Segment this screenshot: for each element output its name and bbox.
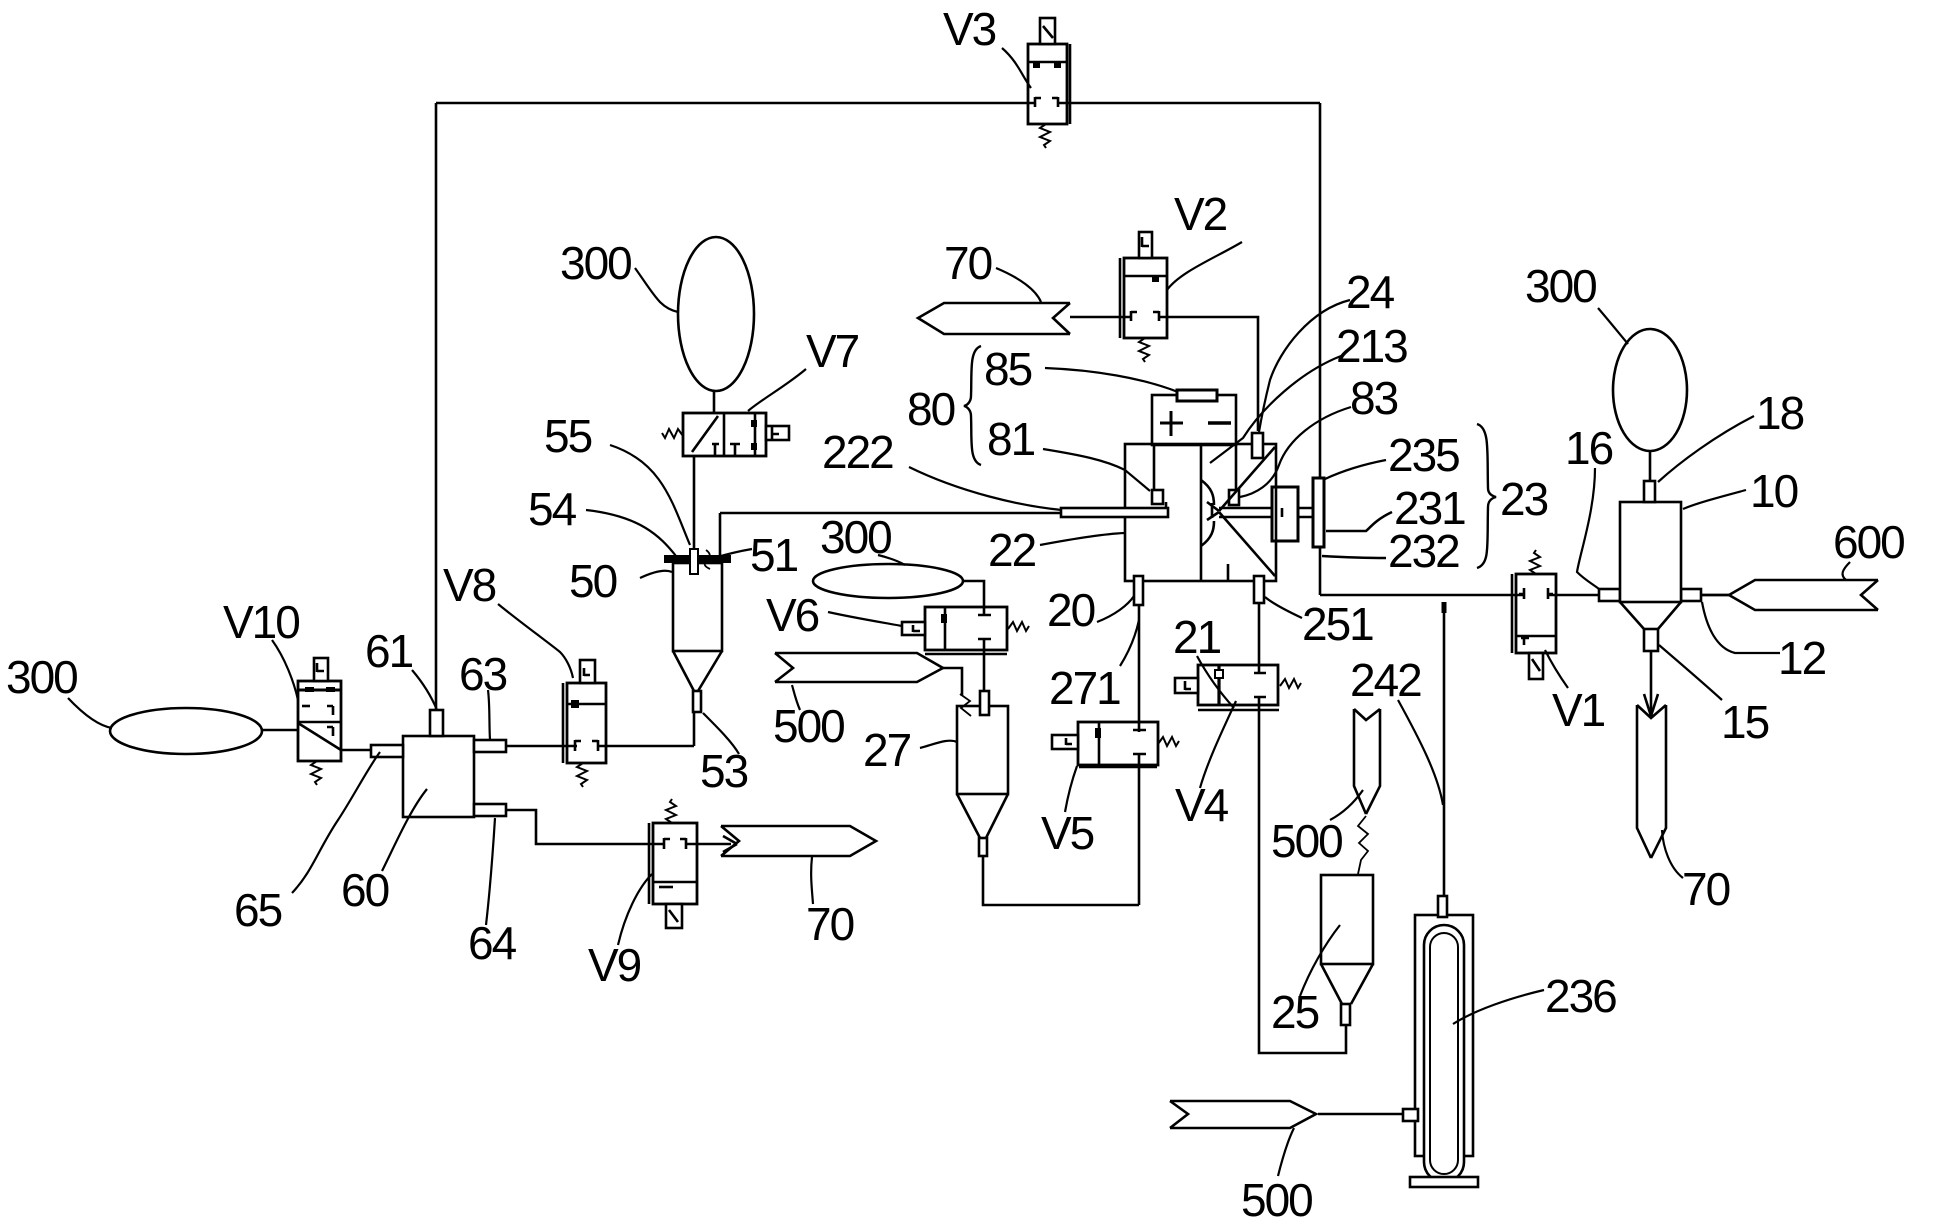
svg-text:63: 63 [459,648,507,700]
svg-text:500: 500 [773,700,844,752]
svg-text:213: 213 [1336,320,1407,372]
svg-text:V6: V6 [766,589,819,641]
svg-text:12: 12 [1778,632,1826,684]
svg-text:V8: V8 [443,559,496,611]
svg-text:21: 21 [1173,611,1221,663]
svg-text:55: 55 [544,410,592,462]
svg-text:22: 22 [988,524,1036,576]
svg-text:300: 300 [1525,260,1596,312]
svg-text:16: 16 [1565,422,1613,474]
svg-text:54: 54 [528,483,577,535]
svg-text:232: 232 [1388,525,1459,577]
svg-text:65: 65 [234,884,282,936]
svg-text:600: 600 [1833,516,1904,568]
svg-text:70: 70 [1682,863,1730,915]
svg-text:500: 500 [1241,1174,1312,1223]
svg-text:64: 64 [468,917,517,969]
svg-text:235: 235 [1388,429,1459,481]
svg-text:53: 53 [700,745,748,797]
svg-text:80: 80 [907,383,955,435]
svg-text:60: 60 [341,864,389,916]
svg-text:V3: V3 [943,3,996,55]
svg-text:300: 300 [6,651,77,703]
svg-text:15: 15 [1721,696,1769,748]
svg-text:V5: V5 [1041,807,1094,859]
svg-text:50: 50 [569,555,617,607]
svg-text:300: 300 [820,511,891,563]
svg-text:70: 70 [944,237,992,289]
svg-text:20: 20 [1047,584,1095,636]
svg-text:V2: V2 [1174,188,1227,240]
svg-text:61: 61 [365,625,413,677]
svg-text:85: 85 [984,343,1032,395]
svg-text:222: 222 [822,426,893,478]
svg-text:18: 18 [1756,387,1804,439]
svg-text:V1: V1 [1552,684,1605,736]
svg-text:V7: V7 [806,325,859,377]
svg-text:236: 236 [1545,970,1616,1022]
svg-text:271: 271 [1049,662,1120,714]
svg-text:500: 500 [1271,815,1342,867]
svg-text:23: 23 [1500,473,1548,525]
svg-text:10: 10 [1750,465,1798,517]
svg-text:300: 300 [560,237,631,289]
svg-text:27: 27 [863,724,911,776]
svg-text:25: 25 [1271,986,1319,1038]
svg-text:81: 81 [987,413,1035,465]
svg-text:V10: V10 [223,596,299,648]
svg-text:251: 251 [1302,598,1373,650]
svg-text:V9: V9 [588,939,641,991]
svg-text:70: 70 [806,898,854,950]
svg-text:83: 83 [1350,372,1398,424]
svg-text:51: 51 [750,529,798,581]
svg-text:24: 24 [1346,266,1395,318]
svg-text:242: 242 [1350,654,1421,706]
svg-text:V4: V4 [1175,779,1229,831]
